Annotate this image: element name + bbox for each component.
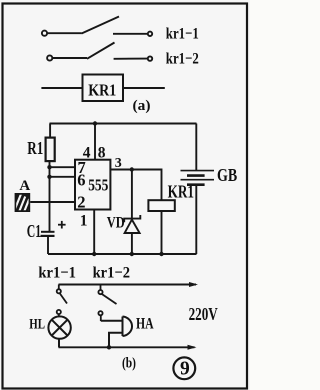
svg-text:8: 8 — [98, 144, 106, 161]
wire pin 1 to bottom rail — [93, 210, 95, 255]
node: pin7 junction — [47, 165, 51, 169]
switch kr1-1 (section b) — [57, 285, 67, 317]
IC 555 — [75, 158, 110, 212]
switch kr1-1 (section a) — [42, 17, 152, 37]
node: HA on bottom rail — [107, 345, 111, 349]
bottom rail (section b) with arrow — [59, 345, 197, 350]
svg-text:4: 4 — [83, 144, 91, 161]
wire pin 2 — [30, 201, 75, 203]
svg-text:VD: VD — [107, 214, 125, 231]
relay coil KR1 (section a) — [41, 75, 164, 102]
diode VD — [124, 170, 140, 255]
wire pin 6 — [50, 176, 76, 178]
battery GB — [181, 124, 215, 255]
svg-text:kr1−2: kr1−2 — [93, 265, 130, 282]
svg-text:C1: C1 — [27, 221, 41, 241]
node: VD on bottom rail — [130, 252, 134, 256]
resistor R1 — [46, 124, 55, 232]
svg-text:HL: HL — [29, 317, 45, 333]
capacitor C1 — [41, 232, 55, 254]
svg-text:1: 1 — [80, 212, 88, 229]
svg-text:GB: GB — [217, 165, 237, 185]
node: pin4/8 junction on top rail — [93, 121, 97, 125]
switch kr1-2 (section a) — [47, 43, 152, 61]
bottom rail (main circuit) — [48, 253, 197, 255]
top wire (section b) with arrow — [59, 282, 199, 287]
border frame — [3, 4, 248, 389]
wire pins 4/8 to top rail — [94, 124, 96, 160]
lamp HL — [48, 316, 70, 347]
svg-text:kr1−1: kr1−1 — [38, 265, 76, 282]
svg-text:220V: 220V — [189, 304, 218, 324]
svg-text:9: 9 — [180, 358, 190, 379]
switch kr1-2 (section b) — [98, 285, 116, 322]
svg-text:HA: HA — [136, 315, 154, 332]
wire pin 7 — [50, 166, 76, 168]
svg-text:R1: R1 — [27, 138, 43, 158]
sensor A (hatched box) — [15, 178, 34, 216]
svg-text:6: 6 — [77, 171, 85, 190]
node: VD junction on pin3 wire — [130, 167, 134, 171]
figure number 9 (circled) — [173, 357, 195, 379]
svg-text:2: 2 — [77, 193, 85, 212]
svg-text:A: A — [19, 178, 30, 194]
svg-text:555: 555 — [88, 175, 108, 194]
svg-text:KR1: KR1 — [88, 81, 116, 100]
svg-text:(a): (a) — [133, 98, 151, 114]
node: relay on bottom rail — [159, 252, 163, 256]
node: pin6 junction — [47, 175, 51, 179]
sounder HA — [101, 317, 132, 348]
plus sign of C1 — [58, 221, 66, 229]
svg-text:kr1−1: kr1−1 — [166, 26, 199, 43]
top rail (main circuit) — [50, 123, 197, 125]
relay coil KR1 (main circuit) — [148, 182, 194, 254]
wire pin 3 — [110, 170, 161, 201]
svg-text:kr1−2: kr1−2 — [166, 50, 199, 67]
node: pin1 on bottom rail — [92, 252, 96, 256]
svg-text:(b): (b) — [122, 356, 136, 372]
